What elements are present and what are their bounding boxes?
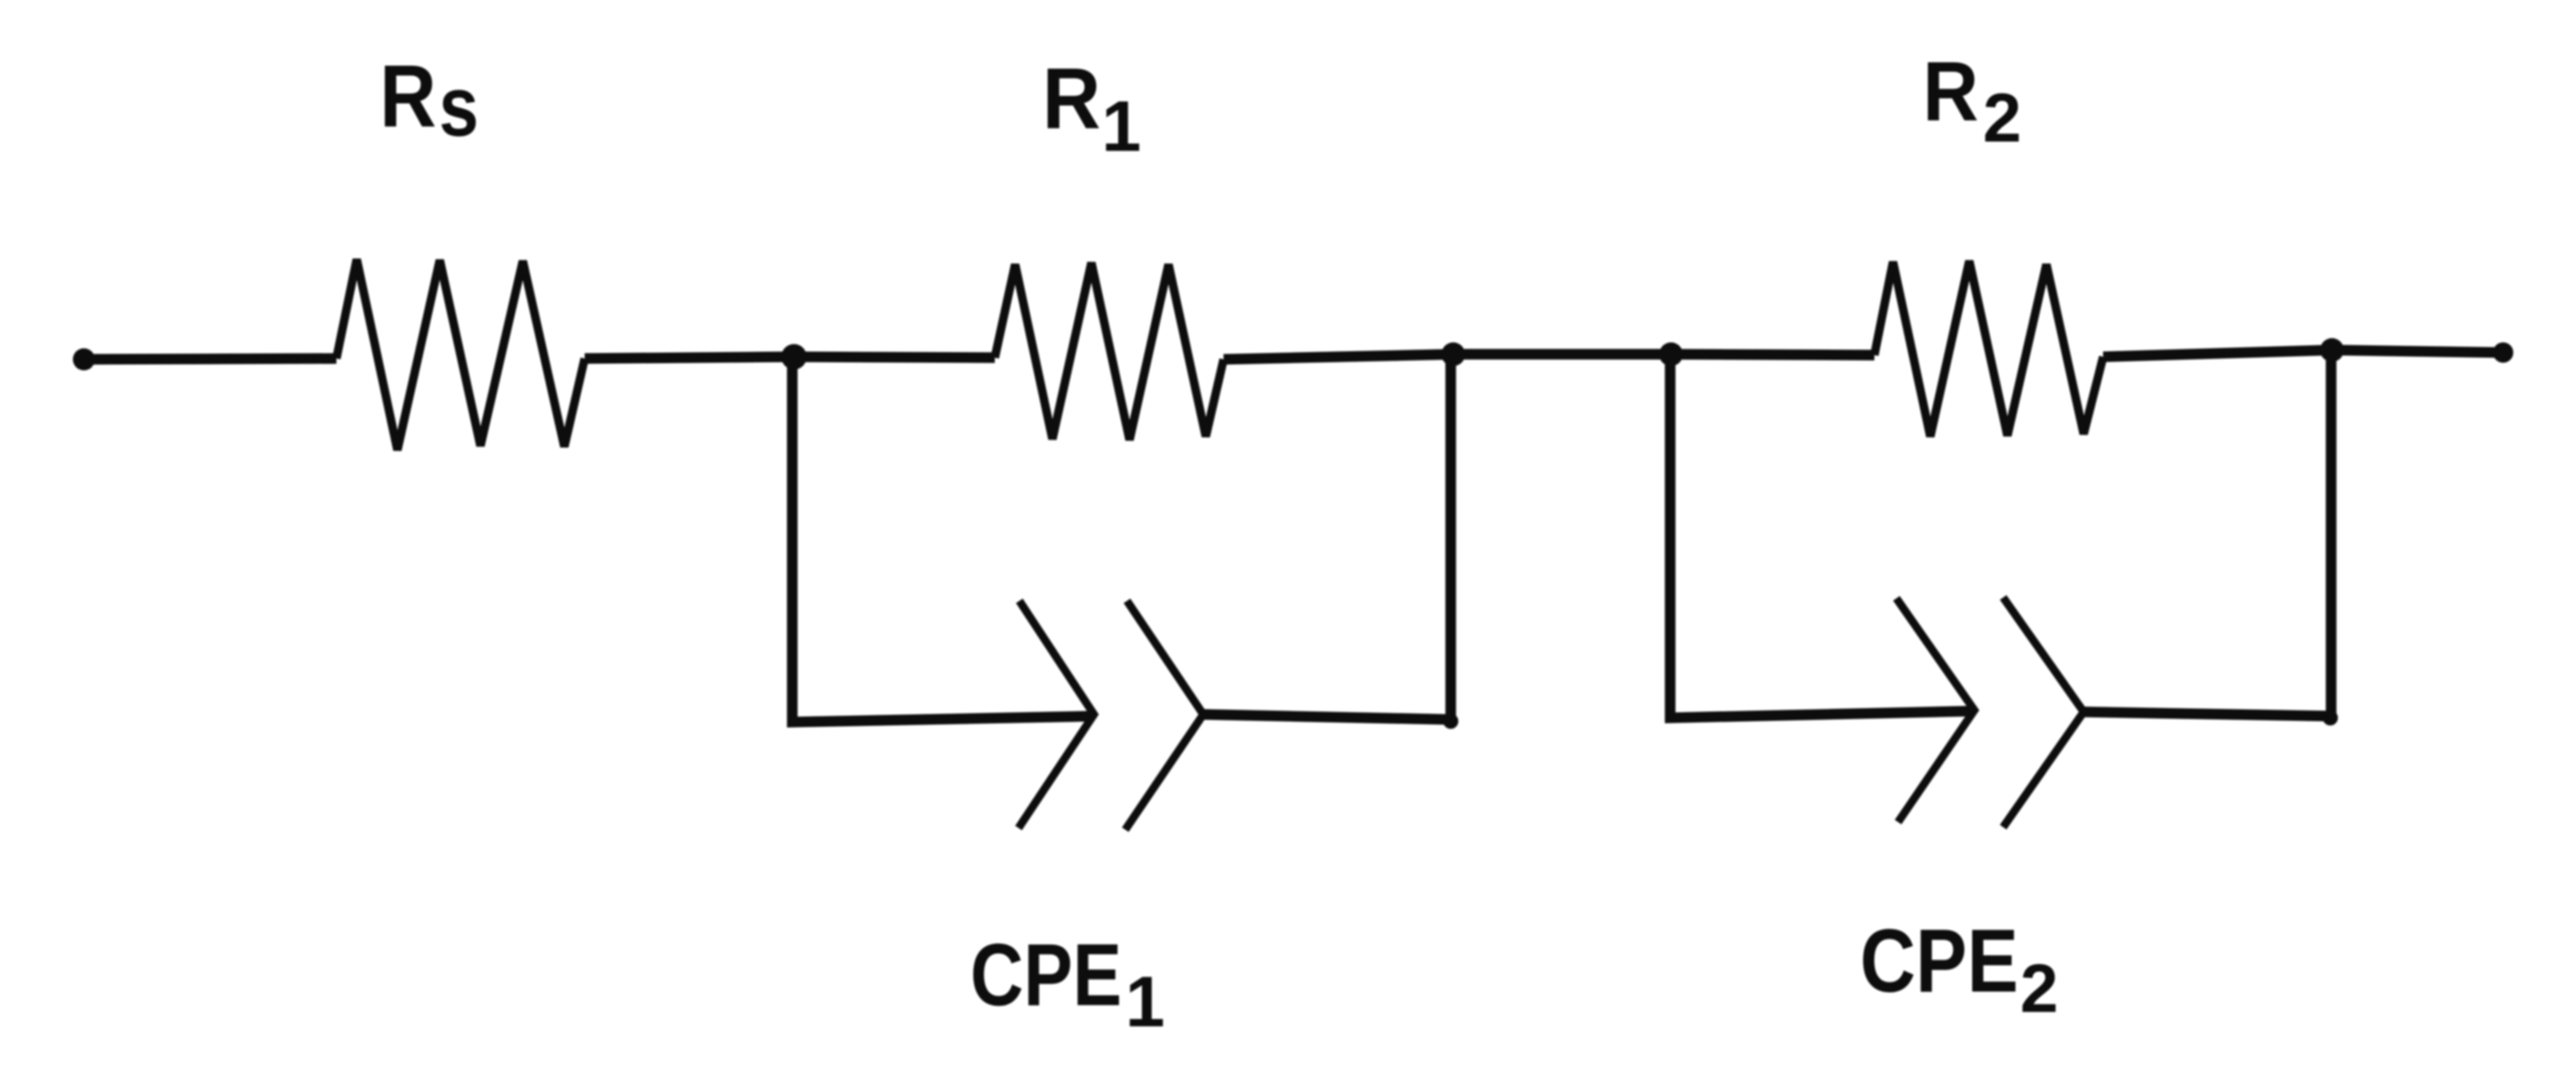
CPE2 chevron 2 [2003, 597, 2084, 827]
wire node A down leg and CPE1 bottom left [792, 357, 1094, 722]
svg-text:2: 2 [1983, 80, 2022, 157]
wire CPE2 bottom right and node D down leg [2084, 350, 2331, 716]
svg-text:R: R [1042, 50, 1101, 147]
wire R1 to node B [1224, 354, 1453, 359]
svg-text:s: s [439, 59, 479, 154]
resistor R2 [1874, 261, 2103, 436]
svg-text:1: 1 [1125, 962, 1165, 1042]
label Rs [380, 47, 479, 154]
wire CPE1 bottom right and node B down leg [1203, 354, 1451, 720]
wire Rs to node A [585, 357, 794, 358]
wire node A to R1 [794, 357, 995, 358]
label R2 [1923, 44, 2022, 157]
wire node B to node C [1453, 349, 1671, 360]
wire node C down leg and CPE2 bottom left [1670, 354, 1974, 718]
node D junction dot [2320, 338, 2344, 362]
resistor R1 [995, 263, 1224, 440]
svg-text:R: R [1923, 44, 1979, 138]
svg-text:CPE: CPE [970, 926, 1122, 1025]
node C junction dot [1659, 342, 1683, 366]
left terminal dot [73, 348, 95, 370]
node A junction dot [781, 344, 807, 370]
wire node C to R2 [1671, 354, 1874, 355]
wire left lead [84, 358, 336, 359]
right terminal dot [2493, 342, 2513, 363]
CPE1 chevron 1 [1019, 601, 1094, 828]
svg-text:R: R [380, 47, 436, 146]
node B junction dot [1441, 342, 1465, 366]
svg-text:2: 2 [2020, 951, 2058, 1027]
CPE2 chevron 1 [1896, 598, 1974, 822]
wire R2 to node D [2103, 350, 2332, 357]
corner nub at node B bottom [1443, 714, 1458, 729]
label CPE1 [970, 926, 1165, 1042]
CPE1 chevron 2 [1125, 601, 1203, 830]
label R1 [1042, 50, 1141, 166]
wire node D to right terminal [2332, 350, 2503, 353]
svg-text:1: 1 [1102, 86, 1141, 166]
corner nub at node D bottom [2323, 710, 2338, 725]
resistor Rs [336, 259, 585, 450]
svg-text:CPE: CPE [1860, 911, 2018, 1011]
label CPE2 [1860, 911, 2058, 1027]
